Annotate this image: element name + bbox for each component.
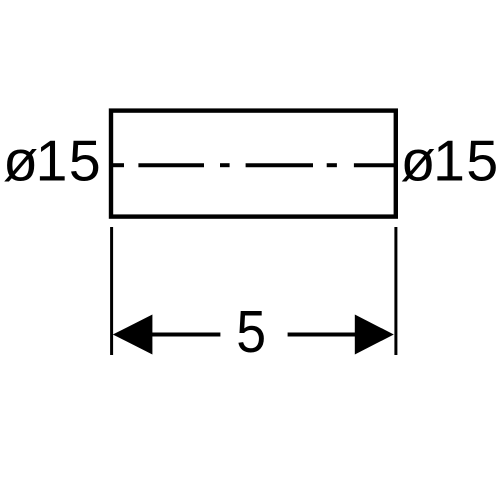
wire	[220, 163, 230, 167]
svg-text:5: 5	[236, 299, 266, 365]
left arrowhead	[113, 315, 153, 355]
wire	[327, 163, 337, 167]
pipe body outline	[111, 111, 396, 217]
wire	[246, 163, 313, 167]
right extension line	[394, 227, 397, 355]
left extension line	[110, 227, 113, 355]
dimension line left segment	[152, 333, 220, 337]
dimension line right segment	[288, 333, 355, 337]
right arrowhead	[355, 315, 394, 355]
right diameter label	[401, 129, 499, 193]
wire	[138, 163, 204, 167]
centerline dash-dot	[113, 163, 396, 167]
wire	[354, 163, 396, 167]
left diameter label	[3, 129, 101, 193]
wire	[113, 163, 124, 167]
